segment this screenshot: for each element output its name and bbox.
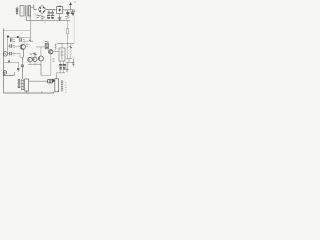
ground and label below C2 bbox=[51, 15, 54, 18]
transistor T2 bbox=[28, 58, 32, 62]
wire V+ drop bbox=[67, 21, 69, 29]
label 220V handwriting bbox=[37, 15, 41, 18]
wire C7 to output transformer bbox=[52, 80, 54, 82]
label Cc bbox=[13, 53, 15, 55]
capacitor C1 bbox=[48, 10, 51, 15]
junction bottom rail tick bbox=[41, 91, 43, 93]
plug P2 prongs bbox=[21, 79, 24, 90]
junction blob input bbox=[7, 36, 9, 38]
capacitor Cb bbox=[10, 44, 12, 48]
ground bus bbox=[27, 20, 70, 22]
transformer TR1 core bbox=[26, 5, 27, 16]
regulator U1 box bbox=[57, 6, 63, 13]
wire collector row bbox=[36, 46, 45, 48]
diode mark mid-left bbox=[21, 65, 24, 68]
label Cb bbox=[13, 45, 15, 47]
wire DC+ to regulator bbox=[46, 9, 57, 11]
capacitor C2 bbox=[51, 10, 54, 15]
wire A row left bbox=[4, 61, 19, 63]
wire ladder vertical bbox=[7, 37, 9, 54]
wire to T1 emitter area bbox=[11, 54, 23, 58]
output transformer TB primary bbox=[55, 79, 59, 92]
capacitor C6 right bbox=[72, 59, 75, 67]
wire bottom rail bbox=[4, 92, 54, 93]
capacitor Cb2 bbox=[20, 38, 22, 42]
output transformer primary box P2 bbox=[25, 79, 29, 91]
output terminal arrow bbox=[70, 5, 72, 10]
capacitor Cc bbox=[10, 52, 12, 56]
wire transformer leads down bbox=[27, 16, 31, 21]
wire bottom bus of circles bbox=[28, 64, 41, 66]
transistor T3 bbox=[33, 57, 37, 61]
bridge rectifier BR1 bbox=[38, 5, 46, 14]
wire T1 collector up bbox=[24, 41, 29, 44]
ground right lower bbox=[66, 62, 69, 72]
blob label left bbox=[17, 68, 19, 71]
capacitor C3 bbox=[67, 10, 69, 12]
wire driver to box bbox=[53, 51, 59, 53]
wire T1 base bbox=[11, 45, 20, 47]
capacitor Cm mid bbox=[34, 52, 37, 57]
output transformer TB secondary coil bbox=[61, 80, 63, 92]
wire bridge bottom lead bbox=[41, 14, 43, 20]
microphone M1 bbox=[3, 52, 7, 56]
wire regulator output bbox=[63, 9, 75, 11]
node hook T1 collector bbox=[29, 40, 30, 42]
plug J1 bbox=[16, 8, 18, 15]
coupling capacitor C7 bbox=[48, 80, 53, 83]
transformer TR1 secondary bbox=[29, 6, 31, 16]
label A bbox=[8, 60, 10, 62]
wire down from A row bbox=[18, 62, 20, 67]
capacitor Ca bbox=[10, 38, 12, 42]
wire to T4 top bbox=[40, 47, 42, 56]
label R2 bbox=[45, 40, 49, 43]
wire P2 bottom to rail bbox=[26, 91, 28, 93]
resistor R4 bbox=[67, 44, 69, 59]
wire left rail bbox=[3, 29, 5, 93]
wire below resistors bbox=[66, 59, 73, 63]
electrolytic D2 below box bbox=[63, 61, 66, 69]
label a bbox=[52, 79, 54, 82]
transistor T5 driver bbox=[49, 50, 53, 54]
wire mid row bbox=[28, 57, 34, 59]
transistor T4 bbox=[38, 56, 43, 61]
wire T1 emitter down bbox=[22, 50, 23, 80]
wire down from T4 bbox=[40, 65, 42, 76]
wire mid-left with tick bbox=[4, 72, 15, 75]
wires between transistor circles bbox=[32, 58, 38, 61]
wire right rail faint bbox=[73, 13, 75, 44]
wire secondary to bridge bbox=[31, 5, 37, 10]
label below driver bbox=[52, 59, 54, 61]
label T2 handwriting bbox=[30, 54, 37, 55]
capacitor C4 bbox=[72, 10, 74, 12]
wire R1 to rail bbox=[67, 34, 69, 44]
wire feed to lower circuit bbox=[30, 21, 32, 42]
trimmer R5 bbox=[70, 44, 72, 59]
resistor R2 bbox=[45, 44, 48, 49]
label Cb2 bbox=[23, 39, 25, 41]
resistor R1 bbox=[67, 29, 69, 34]
output plug P2 bbox=[18, 79, 20, 87]
ground below U1 bbox=[58, 18, 62, 20]
wire below electrolytics bbox=[57, 70, 65, 79]
electrolytic D1 below box bbox=[59, 61, 62, 69]
battery symbol circle left bbox=[3, 71, 7, 75]
transformer TR1 primary bbox=[20, 6, 24, 16]
blob component input 2 bbox=[17, 36, 19, 38]
wire mid bottom bbox=[41, 55, 51, 76]
label 4.7u below C3 bbox=[65, 16, 69, 19]
label Ca bbox=[13, 39, 15, 41]
speaker dotted line bbox=[64, 82, 67, 93]
ground and label below C1 bbox=[47, 15, 50, 18]
resistor R3 bbox=[55, 44, 57, 50]
transistor T1 bbox=[20, 44, 25, 49]
label T1 bbox=[26, 44, 28, 46]
wire regulator ground lead bbox=[59, 14, 61, 18]
wire power rail lower bbox=[57, 43, 74, 45]
driver transformer B2 box bbox=[59, 44, 65, 61]
input row wire bbox=[8, 36, 31, 38]
label +9V top right bbox=[74, 2, 75, 3]
wire P2 to coupling cap bbox=[29, 80, 48, 82]
wire circles to bottom bus bbox=[30, 61, 41, 65]
wire top edge lower circuit bbox=[4, 30, 31, 32]
wire right end stub bbox=[73, 10, 75, 13]
label B40 handwriting bbox=[41, 16, 45, 18]
